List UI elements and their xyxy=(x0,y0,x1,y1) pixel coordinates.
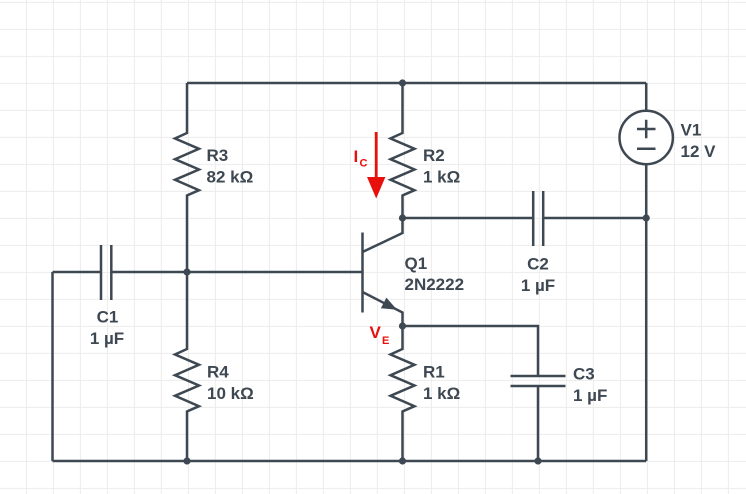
svg-text:E: E xyxy=(382,335,389,347)
resistor R1 xyxy=(391,326,415,461)
wire C2 to right rail xyxy=(543,217,646,220)
svg-text:C2: C2 xyxy=(527,255,549,274)
wire emitter node to C3 branch xyxy=(403,326,539,376)
node collector junction xyxy=(399,214,406,221)
transistor Q1 emitter arrowhead xyxy=(381,298,397,310)
wire C3 to bottom rail xyxy=(537,386,540,461)
wire base rail C1 to Q1 base xyxy=(111,271,362,274)
wire base rail left of C1 xyxy=(53,271,102,274)
node R1 bottom junction xyxy=(399,457,406,464)
svg-text:V: V xyxy=(370,323,382,342)
transistor Q1 collector lead xyxy=(363,218,403,252)
wire bottom rail xyxy=(53,460,647,463)
node collector top junction xyxy=(399,79,406,86)
svg-text:2N2222: 2N2222 xyxy=(405,275,465,294)
wire V1 top lead xyxy=(645,83,648,111)
resistor R3 xyxy=(175,83,199,272)
svg-text:Q1: Q1 xyxy=(405,254,428,273)
svg-text:1 kΩ: 1 kΩ xyxy=(423,384,460,403)
svg-text:1 µF: 1 µF xyxy=(521,276,555,295)
wire right rail (V1 minus to bottom) xyxy=(645,164,648,461)
annotation arrow IC current (red) xyxy=(375,132,378,178)
node C3 bottom junction xyxy=(534,457,541,464)
svg-text:1 µF: 1 µF xyxy=(90,329,124,348)
svg-text:82 kΩ: 82 kΩ xyxy=(207,168,254,187)
svg-text:C: C xyxy=(360,158,368,170)
svg-text:C1: C1 xyxy=(97,308,119,327)
resistor R2 xyxy=(391,83,415,218)
node C2 right rail junction xyxy=(643,214,650,221)
svg-text:1 µF: 1 µF xyxy=(573,386,607,405)
node base divider junction xyxy=(183,268,190,275)
svg-text:10 kΩ: 10 kΩ xyxy=(207,384,254,403)
node emitter junction xyxy=(399,322,406,329)
wire top rail xyxy=(187,82,646,85)
transistor Q1 emitter lead xyxy=(363,292,403,326)
svg-text:12 V: 12 V xyxy=(681,142,717,161)
voltage source V1 minus sign xyxy=(637,147,656,150)
svg-text:R3: R3 xyxy=(207,146,229,165)
capacitor C1 xyxy=(101,245,111,300)
wire collector node to C2 xyxy=(403,217,534,220)
wire left rail xyxy=(51,272,54,461)
svg-text:I: I xyxy=(354,147,359,166)
svg-text:V1: V1 xyxy=(681,121,702,140)
node R4 bottom junction xyxy=(183,457,190,464)
svg-text:R4: R4 xyxy=(207,363,229,382)
svg-text:1 kΩ: 1 kΩ xyxy=(423,168,460,187)
svg-text:R2: R2 xyxy=(423,146,445,165)
voltage source V1 circle xyxy=(620,111,673,164)
capacitor C2 xyxy=(533,191,543,246)
svg-text:R1: R1 xyxy=(423,363,445,382)
capacitor C3 xyxy=(511,376,566,386)
transistor Q1 base bar xyxy=(361,233,364,313)
svg-text:C3: C3 xyxy=(573,365,595,384)
resistor R4 xyxy=(175,272,199,461)
voltage source V1 plus sign xyxy=(637,120,656,139)
